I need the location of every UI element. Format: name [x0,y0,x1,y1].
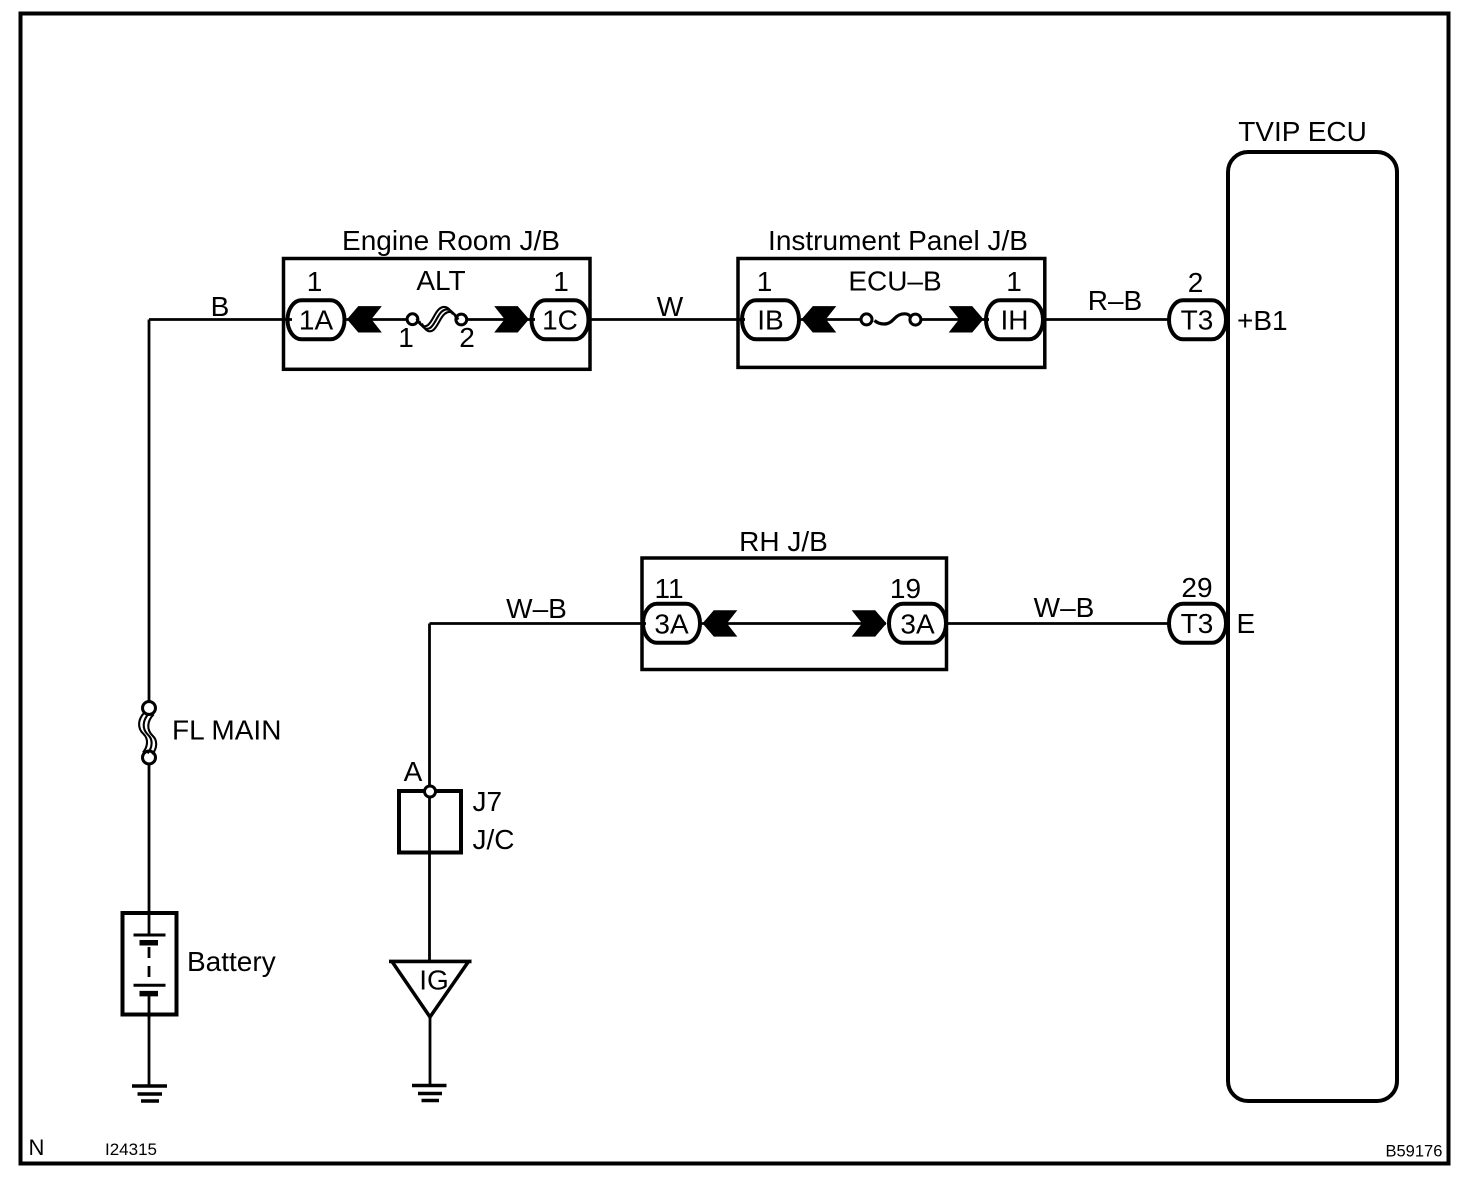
arrow toward IB [802,306,837,332]
svg-text:1: 1 [1006,266,1022,297]
svg-text:T3: T3 [1181,608,1214,639]
wire 1A to fuse ALT [347,318,409,321]
svg-text:ALT: ALT [416,265,465,296]
svg-text:W: W [657,291,684,322]
arrow toward 1C [494,306,529,332]
TVIP ECU U1 [1228,152,1397,1101]
svg-text:1A: 1A [299,305,334,336]
svg-text:FL MAIN: FL MAIN [172,715,281,746]
svg-text:3A: 3A [654,609,689,640]
svg-text:3A: 3A [900,609,935,640]
connector IH [986,300,1043,339]
fuse ECU-B [861,314,872,325]
svg-text:RH J/B: RH J/B [739,526,828,557]
svg-text:B: B [211,291,230,322]
wire W-B (J7 junction to 3A) [430,622,647,625]
wire IB to fuse ECU-B [801,318,863,321]
arrow toward 1A [347,306,382,332]
wire FL MAIN to battery [148,765,151,914]
connector IB [742,300,799,339]
svg-text:TVIP ECU: TVIP ECU [1238,116,1367,147]
svg-text:T3: T3 [1181,305,1214,336]
junction block RH J/B [642,558,947,670]
wire W (1C to IB) [591,318,746,321]
wire (B net, battery branch vertical) [148,320,151,702]
arrow toward left 3A [703,610,738,636]
svg-text:Engine Room J/B: Engine Room J/B [342,225,560,256]
wire fuse ECU-B to connector IH [921,318,990,321]
svg-text:W–B: W–B [506,593,567,624]
connector 1C [532,300,589,339]
wire battery to ground [148,1016,151,1085]
junction block Instrument Panel J/B [738,259,1045,368]
wire IG to ground [429,1015,432,1085]
arrow toward IH [949,306,984,332]
wire B (battery to connector 1A) [149,318,292,321]
node A [425,786,436,797]
svg-text:A: A [404,756,423,787]
svg-text:2: 2 [1188,267,1204,298]
connector 3A (left) [643,604,700,643]
wire W-B (3A to T3) [948,622,1170,625]
battery BT1 [123,913,177,1015]
svg-text:R–B: R–B [1088,285,1142,316]
svg-text:J/C: J/C [473,824,515,855]
svg-text:W–B: W–B [1034,592,1095,623]
wire R-B (IH to T3) [1045,318,1170,321]
svg-text:1: 1 [307,266,323,297]
wire (vertical down to node A) [428,624,431,787]
power symbol IG [389,960,472,964]
svg-text:1: 1 [757,266,773,297]
ground (IG) [412,1084,447,1088]
svg-text:E: E [1237,608,1256,639]
svg-text:Instrument Panel J/B: Instrument Panel J/B [768,225,1028,256]
svg-text:19: 19 [890,573,921,604]
arrow toward right 3A [852,610,887,636]
wire between 3A connectors [702,622,886,625]
svg-text:1: 1 [398,322,414,353]
svg-text:1: 1 [553,266,569,297]
svg-text:ECU–B: ECU–B [848,266,941,297]
wire node A through J7 to IG [428,798,431,962]
svg-text:IH: IH [1001,305,1029,336]
svg-text:Battery: Battery [187,946,276,977]
svg-text:J7: J7 [473,786,503,817]
svg-text:B59176: B59176 [1386,1143,1443,1161]
svg-text:IB: IB [757,305,783,336]
connector 1A [288,300,345,339]
junction block Engine Room J/B [284,259,591,370]
connector T3 (+B1) [1169,300,1226,339]
fuse ALT (fusible link) [407,314,418,325]
svg-text:1C: 1C [542,305,578,336]
fusible link FL MAIN [143,702,156,715]
svg-text:IG: IG [419,965,449,996]
svg-text:I24315: I24315 [105,1140,157,1159]
wire fuse ALT to connector 1C [467,318,536,321]
svg-text:2: 2 [459,322,475,353]
junction connector J7 J/C [399,791,461,853]
svg-text:+B1: +B1 [1237,305,1288,336]
svg-text:11: 11 [654,573,683,604]
svg-text:29: 29 [1181,572,1212,603]
connector T3 (E) [1169,604,1226,643]
connector 3A (right) [889,604,946,643]
svg-text:N: N [29,1135,45,1160]
ground (battery) [132,1084,167,1088]
